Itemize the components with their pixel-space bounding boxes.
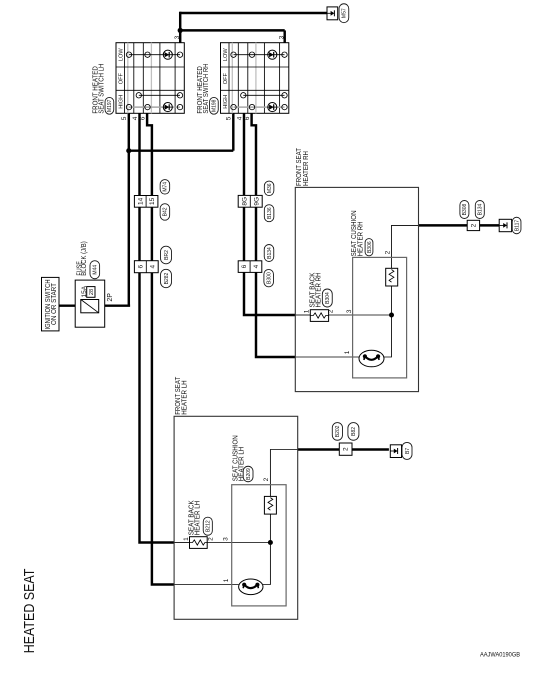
svg-text:SEAT SWITCH LH: SEAT SWITCH LH bbox=[99, 64, 106, 114]
svg-text:B117: B117 bbox=[514, 220, 520, 232]
svg-text:1: 1 bbox=[223, 578, 230, 582]
svg-text:4: 4 bbox=[253, 264, 260, 268]
svg-text:1: 1 bbox=[183, 537, 190, 541]
svg-text:SEAT SWITCH RH: SEAT SWITCH RH bbox=[203, 64, 210, 114]
svg-text:M36: M36 bbox=[267, 183, 273, 193]
svg-text:M74: M74 bbox=[163, 182, 169, 192]
svg-text:HEATER LH: HEATER LH bbox=[238, 447, 245, 482]
svg-text:6: 6 bbox=[241, 264, 248, 268]
svg-text:3: 3 bbox=[346, 309, 353, 313]
svg-text:HEATER RH: HEATER RH bbox=[315, 273, 322, 308]
svg-text:M197: M197 bbox=[107, 99, 113, 112]
svg-text:B134: B134 bbox=[267, 247, 273, 259]
svg-text:B282: B282 bbox=[164, 272, 170, 284]
svg-text:M198: M198 bbox=[212, 99, 218, 112]
svg-text:8G: 8G bbox=[241, 197, 248, 206]
svg-text:HEATED SEAT: HEATED SEAT bbox=[21, 569, 38, 654]
svg-text:3: 3 bbox=[222, 537, 229, 541]
svg-text:B136: B136 bbox=[267, 207, 273, 219]
svg-text:BR2: BR2 bbox=[164, 250, 170, 260]
svg-text:BLOCK (J/B): BLOCK (J/B) bbox=[81, 241, 88, 276]
svg-text:B202: B202 bbox=[335, 425, 341, 437]
svg-text:2: 2 bbox=[471, 223, 478, 227]
svg-text:2: 2 bbox=[343, 447, 350, 451]
svg-text:HEATER LH: HEATER LH bbox=[182, 380, 189, 415]
svg-text:1: 1 bbox=[304, 309, 311, 313]
svg-text:14: 14 bbox=[137, 197, 144, 205]
svg-text:4: 4 bbox=[149, 265, 156, 269]
svg-text:HEATER LH: HEATER LH bbox=[194, 501, 201, 536]
svg-text:HEATER RH: HEATER RH bbox=[358, 221, 365, 256]
svg-text:B7: B7 bbox=[405, 448, 411, 454]
svg-text:2: 2 bbox=[328, 309, 335, 313]
svg-text:6: 6 bbox=[137, 265, 144, 269]
svg-text:1: 1 bbox=[344, 350, 351, 354]
svg-text:B304: B304 bbox=[325, 292, 331, 304]
svg-text:2: 2 bbox=[385, 250, 392, 254]
svg-text:15: 15 bbox=[149, 197, 156, 205]
svg-text:2: 2 bbox=[263, 477, 270, 481]
svg-text:B82: B82 bbox=[351, 427, 357, 436]
svg-text:M57: M57 bbox=[342, 8, 348, 18]
svg-text:28: 28 bbox=[89, 289, 95, 295]
svg-text:B212: B212 bbox=[206, 520, 212, 532]
svg-text:2P: 2P bbox=[107, 293, 114, 302]
svg-text:B308: B308 bbox=[462, 203, 468, 215]
svg-text:HEATER RH: HEATER RH bbox=[303, 151, 310, 186]
svg-text:M44: M44 bbox=[93, 265, 99, 275]
svg-text:B134: B134 bbox=[478, 203, 484, 215]
svg-text:15A: 15A bbox=[81, 285, 88, 297]
svg-text:ON OR START: ON OR START bbox=[51, 282, 58, 325]
svg-text:B42: B42 bbox=[163, 207, 169, 216]
svg-text:B209: B209 bbox=[246, 468, 252, 480]
svg-text:9G: 9G bbox=[253, 197, 260, 206]
svg-text:AAJWA0190GB: AAJWA0190GB bbox=[480, 652, 520, 659]
svg-text:B300: B300 bbox=[267, 272, 273, 284]
svg-text:2: 2 bbox=[208, 537, 215, 541]
svg-text:B306: B306 bbox=[367, 241, 373, 253]
